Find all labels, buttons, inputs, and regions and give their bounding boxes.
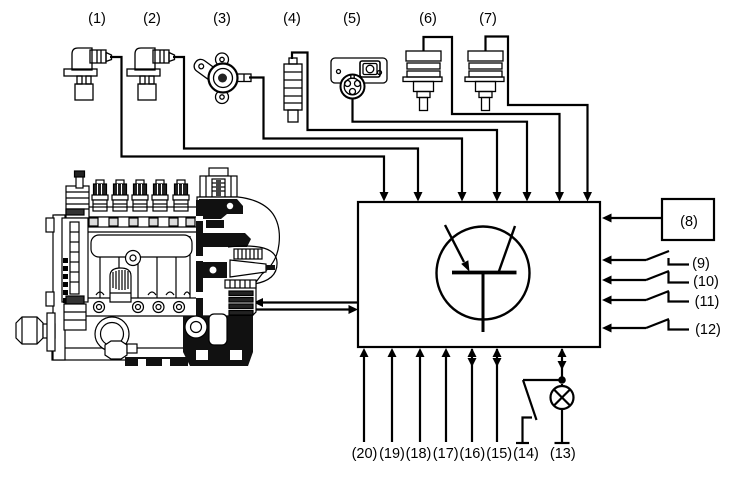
- svg-text:(5): (5): [343, 11, 361, 27]
- inspection plug circle: [126, 251, 141, 266]
- svg-text:(15): (15): [486, 446, 512, 462]
- governor joint black column: [196, 200, 203, 318]
- wire (15) bidirectional: [496, 349, 498, 442]
- hand primer pump: [110, 268, 131, 302]
- drive shaft: [43, 324, 55, 338]
- drive shaft hex nut: [16, 317, 43, 344]
- pump body block: [55, 215, 197, 355]
- sensor 1 speed sensor: [64, 48, 112, 100]
- svg-text:(18): (18): [406, 446, 432, 462]
- sensor 4 fuel temperature sensor: [284, 58, 302, 122]
- junction node: [558, 376, 566, 384]
- wire (16) bidirectional: [471, 349, 473, 442]
- switch (12): [602, 319, 689, 333]
- governor lower hatched strip: [225, 280, 256, 288]
- svg-text:(9): (9): [692, 256, 710, 272]
- wire (19): [391, 356, 393, 442]
- arrow control unit to pump: [263, 301, 358, 303]
- governor spring: [229, 291, 253, 296]
- svg-text:(17): (17): [433, 446, 459, 462]
- delivery valve holder 4: [152, 180, 168, 211]
- switch (10): [602, 271, 689, 285]
- switch (14): [516, 380, 562, 443]
- delivery valve holder 3: [132, 180, 148, 211]
- lamp (13): [551, 384, 574, 443]
- svg-text:(4): (4): [283, 11, 301, 27]
- governor internals upper black band: [199, 199, 243, 219]
- delivery valve holder 5: [173, 180, 189, 211]
- transistor symbol inside control unit: [437, 225, 530, 332]
- switch (9): [602, 251, 689, 265]
- wire sensor6 to box: [424, 37, 560, 193]
- pump base shadow strip: [125, 357, 188, 366]
- wire sensor4 to box: [292, 53, 497, 194]
- svg-text:(6): (6): [419, 11, 437, 27]
- wire (13)(14) bidirectional stem: [561, 349, 563, 380]
- side port bosses: [94, 302, 105, 313]
- left mounting plate: [53, 215, 65, 360]
- delivery valve holder 1: [92, 180, 108, 211]
- svg-text:(8): (8): [680, 214, 698, 230]
- svg-text:(7): (7): [479, 11, 497, 27]
- governor lower lever black: [199, 262, 227, 278]
- mounting flange circle with plug: [95, 317, 129, 351]
- governor sleeve cone: [230, 260, 266, 277]
- control unit box: [358, 202, 600, 347]
- wire sensor5 to box: [353, 98, 528, 193]
- svg-text:(13): (13): [550, 446, 576, 462]
- switch (11): [602, 291, 689, 305]
- sensor 6 water temperature sensor: [403, 51, 442, 111]
- governor top housing: [209, 168, 228, 176]
- wire (17): [445, 356, 447, 442]
- svg-text:(11): (11): [695, 294, 720, 310]
- svg-text:(3): (3): [213, 11, 231, 27]
- svg-text:(1): (1): [88, 11, 106, 27]
- svg-text:(20): (20): [352, 446, 378, 462]
- wire sensor1 to box: [110, 57, 384, 193]
- wire sensor7 to box: [486, 37, 588, 194]
- injection pump illustration: [16, 168, 279, 366]
- delivery valve holder 2: [112, 180, 128, 211]
- svg-text:(16): (16): [459, 446, 485, 462]
- wire sensor2 to box: [173, 57, 418, 193]
- sensor 3 timer sensor: [192, 53, 251, 104]
- svg-text:(10): (10): [693, 274, 719, 290]
- box (8): [662, 199, 714, 240]
- wire (18): [419, 356, 421, 442]
- governor weight black band: [199, 233, 251, 247]
- sensor 5 rack sensor connector: [331, 58, 387, 99]
- svg-text:(14): (14): [513, 446, 539, 462]
- sensor 7 water temperature sensor: [465, 51, 504, 111]
- wire (20): [363, 356, 365, 442]
- arrow from box8 to control unit: [611, 217, 662, 219]
- governor lower black base: [183, 316, 253, 366]
- fuel feed pump tower: [66, 186, 89, 218]
- svg-text:(2): (2): [143, 11, 161, 27]
- sensor 2 speed sensor: [127, 48, 175, 100]
- svg-text:(19): (19): [379, 446, 405, 462]
- pump delivery manifold band: [85, 207, 198, 217]
- svg-text:(12): (12): [695, 322, 721, 338]
- governor housing outline: [197, 197, 279, 316]
- wire sensor3 to box: [249, 78, 462, 194]
- governor spring pack hatched: [234, 249, 262, 259]
- arrow pump to control unit: [251, 308, 349, 310]
